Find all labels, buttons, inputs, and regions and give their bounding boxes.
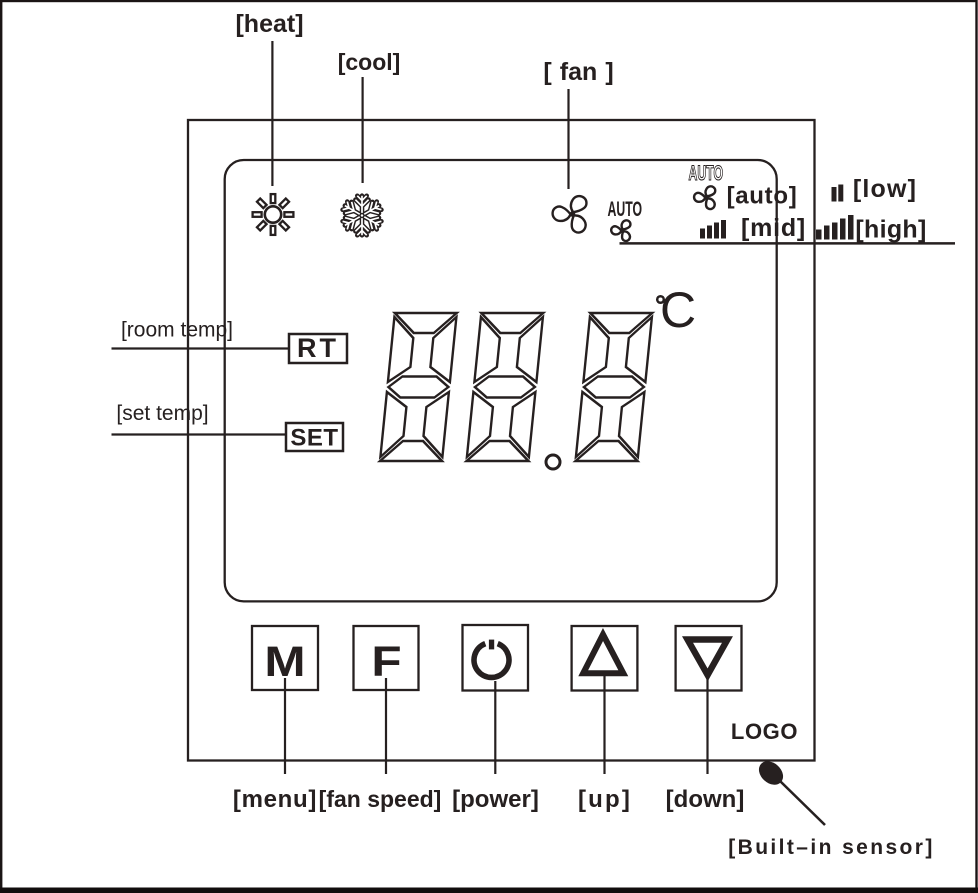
svg-text:[low]: [low] <box>853 175 917 203</box>
svg-text:[Built–in sensor]: [Built–in sensor] <box>728 836 934 859</box>
svg-text:RT: RT <box>297 333 339 363</box>
built-in sensor dot <box>754 757 787 790</box>
svg-text:[up]: [up] <box>578 786 632 813</box>
svg-text:[high]: [high] <box>855 216 926 244</box>
svg-text:[down]: [down] <box>666 786 745 813</box>
button power box <box>463 625 529 691</box>
mid speed bars <box>700 229 705 239</box>
button M letter <box>264 637 305 685</box>
RT box <box>289 334 347 363</box>
svg-text:]: ] <box>605 58 613 86</box>
AUTO text (solid) <box>608 196 643 220</box>
power icon <box>474 640 509 678</box>
leader line heat <box>271 41 273 186</box>
svg-text:fan: fan <box>560 58 598 86</box>
7-seg digit 1 <box>380 313 457 461</box>
decimal point <box>546 455 560 469</box>
label [fan] <box>543 58 613 86</box>
auto fan icon <box>694 185 717 211</box>
svg-text:[room temp]: [room temp] <box>121 319 233 342</box>
leader line cool <box>362 77 364 183</box>
svg-text:[auto]: [auto] <box>727 183 798 210</box>
auto fan small icon <box>611 219 632 243</box>
leader line set temp <box>112 433 287 435</box>
heat sun icon <box>253 194 294 235</box>
svg-text:[heat]: [heat] <box>235 10 303 38</box>
svg-text:AUTO: AUTO <box>689 160 724 184</box>
svg-text:[mid]: [mid] <box>741 214 806 242</box>
degree symbol ring <box>657 296 664 303</box>
svg-text:AUTO: AUTO <box>608 196 643 220</box>
svg-text:[power]: [power] <box>452 786 539 813</box>
svg-text:[: [ <box>543 58 552 86</box>
button leader lines <box>284 678 286 774</box>
leader line room temp <box>112 347 290 349</box>
svg-text:[fan speed]: [fan speed] <box>319 786 442 812</box>
leader line fan <box>567 89 569 189</box>
svg-text:[cool]: [cool] <box>338 49 401 75</box>
fan speed underline <box>620 242 956 245</box>
svg-text:[menu]: [menu] <box>233 786 317 813</box>
svg-text:SET: SET <box>290 425 338 452</box>
sensor leader line <box>780 781 825 825</box>
LCD screen outline <box>225 160 777 601</box>
svg-text:LOGO: LOGO <box>731 719 798 744</box>
high speed bars <box>816 230 822 240</box>
button F box <box>354 626 419 690</box>
button M box <box>252 626 318 690</box>
cool snowflake icon <box>342 196 383 236</box>
svg-text:[set temp]: [set temp] <box>116 402 208 425</box>
svg-text:C: C <box>660 282 696 338</box>
down triangle <box>688 640 728 676</box>
7-seg digit 2 <box>467 313 544 461</box>
AUTO text (outline) <box>689 160 724 184</box>
up triangle <box>583 635 623 674</box>
fan icon <box>552 194 589 236</box>
7-seg digit 3 <box>576 313 653 461</box>
low speed bars <box>832 187 837 202</box>
SET box <box>286 423 343 451</box>
button down box <box>676 626 742 691</box>
button F letter <box>371 637 401 685</box>
button up box <box>572 626 638 691</box>
thermostat body outline <box>188 120 815 761</box>
